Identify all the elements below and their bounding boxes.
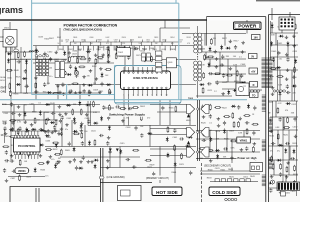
- resistor R617: [60, 150, 62, 154]
- capacitor C612: [220, 63, 225, 66]
- svg-text:C614: C614: [140, 51, 146, 53]
- capacitor C637: [209, 114, 212, 119]
- svg-text:100: 100: [233, 56, 236, 58]
- resistor R607: [77, 59, 79, 63]
- svg-text:470: 470: [87, 75, 90, 77]
- svg-text:HOT SIDE: HOT SIDE: [156, 190, 178, 195]
- polarity arrow 4: [109, 149, 112, 152]
- ground: [74, 91, 78, 94]
- svg-text:Power on: High: Power on: High: [238, 156, 257, 160]
- wire: [35, 46, 37, 100]
- capacitor C621: [82, 156, 85, 161]
- diode D603: [8, 52, 11, 55]
- capacitor C612: [223, 121, 226, 126]
- resistor R612: [225, 116, 229, 118]
- resistor R625: [272, 164, 274, 168]
- svg-text:POWER FACTOR CORRECTION: POWER FACTOR CORRECTION: [64, 23, 118, 27]
- wire: [88, 125, 196, 127]
- capacitor C612: [292, 76, 297, 79]
- diode D615: [223, 130, 226, 133]
- svg-text:Q601: Q601: [152, 49, 157, 51]
- resistor R601: [233, 123, 235, 127]
- wire: [87, 46, 89, 63]
- diode D621: [242, 90, 245, 93]
- resistor R652: [146, 159, 150, 161]
- capacitor C608: [254, 156, 257, 161]
- ground: [46, 161, 50, 164]
- resistor R604: [271, 157, 273, 161]
- ground: [82, 83, 86, 86]
- bridge rectifier D601: [3, 30, 17, 48]
- ground: [202, 133, 206, 136]
- capacitor C633: [2, 121, 7, 124]
- PFC controller pins bottom: [15, 152, 17, 155]
- capacitor C605: [277, 51, 280, 56]
- node box right edge: [250, 163, 263, 172]
- svg-text:0.1: 0.1: [209, 123, 212, 125]
- svg-text:3: 3: [133, 95, 134, 97]
- ground: [213, 50, 217, 53]
- wire: [109, 147, 111, 168]
- resistor R633: [9, 84, 11, 88]
- svg-text:0.1: 0.1: [239, 56, 242, 58]
- resistor R645: [47, 149, 51, 151]
- wire: [150, 111, 187, 113]
- wire: [285, 175, 287, 188]
- IC601 pins: [123, 72, 125, 74]
- resistor R609: [106, 69, 110, 71]
- ground: [240, 148, 244, 151]
- svg-text:100: 100: [47, 83, 50, 85]
- diode D603: [40, 144, 43, 147]
- svg-text:R603: R603: [59, 49, 64, 51]
- diode D621: [277, 66, 280, 69]
- diode D605: [73, 118, 76, 121]
- svg-text:P.F.CONTROL: P.F.CONTROL: [18, 144, 36, 148]
- capacitor C641: [201, 105, 204, 110]
- caption live ground: [106, 175, 132, 180]
- svg-text:4.7: 4.7: [98, 42, 100, 44]
- diode D621: [216, 155, 219, 158]
- ground: [107, 136, 111, 139]
- diode D601: [67, 104, 70, 107]
- diode D603: [94, 165, 97, 168]
- ground: [54, 51, 58, 54]
- wire stubs bus join: [59, 42, 61, 46]
- capacitor C612: [81, 141, 84, 146]
- diode D602 circled: [62, 71, 66, 75]
- wire: [268, 69, 298, 71]
- wire: [283, 117, 285, 130]
- wire: [55, 84, 196, 86]
- wire: [200, 173, 260, 175]
- resistor R622: [73, 83, 77, 85]
- capacitor C601: [223, 147, 228, 150]
- ground: [85, 113, 89, 116]
- resistor R640: [7, 69, 11, 71]
- capacitor C633: [17, 60, 22, 63]
- ground: [34, 76, 38, 79]
- resistor R645: [204, 55, 206, 59]
- capacitor C603: [3, 168, 6, 173]
- capacitor C615: [208, 72, 213, 75]
- diode D603 circled: [74, 71, 78, 75]
- capacitor C608: [4, 159, 9, 162]
- resistor R636: [208, 149, 212, 151]
- wire: [53, 105, 55, 121]
- connector CN601 block: [279, 17, 295, 30]
- polarity arrow 2: [187, 141, 190, 145]
- wire: [10, 47, 12, 93]
- wire: [281, 22, 283, 33]
- svg-text:100: 100: [49, 68, 52, 70]
- ground: [270, 175, 274, 178]
- svg-text:R618: R618: [171, 49, 176, 51]
- wire: [67, 46, 69, 63]
- diode D607: [100, 117, 103, 120]
- diode D601: [270, 42, 273, 45]
- svg-text:D603: D603: [130, 39, 134, 41]
- ground: [49, 155, 53, 158]
- ground: [17, 139, 21, 142]
- wire: [5, 51, 33, 53]
- capacitor C621: [41, 73, 46, 76]
- wire: [196, 130, 260, 132]
- wire: [169, 100, 171, 125]
- diode D621: [94, 122, 97, 125]
- wire: [5, 47, 7, 93]
- resistor R612: [17, 129, 19, 133]
- capacitor C615: [18, 168, 21, 173]
- resistor R640: [93, 102, 95, 106]
- wire: [246, 20, 248, 34]
- HOT SIDE box: [152, 187, 182, 196]
- resistor R648: [56, 153, 60, 155]
- ground: [10, 154, 14, 157]
- capacitor C621: [100, 82, 103, 87]
- ground: [286, 161, 290, 164]
- resistor R615: [215, 73, 219, 75]
- svg-text:C611: C611: [146, 39, 150, 41]
- diode D617: [25, 61, 28, 64]
- wire: [159, 147, 161, 184]
- diode D612: [7, 60, 10, 63]
- svg-text:C607: C607: [114, 39, 118, 41]
- capacitor C623: [207, 82, 212, 85]
- diode D607: [46, 134, 49, 137]
- wire: [79, 85, 81, 100]
- node J box: [249, 54, 258, 59]
- diode D621: [51, 121, 54, 124]
- ground: [292, 44, 296, 47]
- capacitor C630: [221, 55, 224, 60]
- capacitor C633: [290, 157, 295, 160]
- diode D609: [239, 157, 242, 160]
- resistor R609: [36, 56, 38, 60]
- diode D612: [286, 43, 289, 46]
- wire: [287, 45, 289, 57]
- capacitor C630: [286, 57, 289, 62]
- highlight PFC box right: [178, 3, 180, 100]
- inductor L605 pad: [99, 176, 104, 179]
- ground: [270, 129, 274, 132]
- capacitor C623: [68, 89, 73, 92]
- svg-text:8: 8: [156, 95, 157, 97]
- wire stubs upper: [61, 40, 63, 43]
- resistor R636: [115, 54, 117, 58]
- ground: [56, 67, 60, 70]
- ground: [26, 129, 30, 132]
- resistor R615: [19, 161, 21, 165]
- diode D623: [74, 68, 77, 71]
- svg-text:(SECONDARY CIRCUIT): (SECONDARY CIRCUIT): [204, 165, 231, 168]
- wire: [150, 104, 187, 106]
- diode D615: [148, 132, 151, 135]
- resistor R615: [280, 164, 282, 168]
- diode D609: [294, 60, 297, 63]
- resistor R615: [72, 110, 74, 114]
- capacitor C608: [134, 47, 139, 50]
- wire: [196, 158, 248, 160]
- svg-text:222: 222: [147, 42, 150, 44]
- resistor R604: [108, 106, 110, 110]
- wire: [200, 51, 246, 53]
- capacitor C633: [127, 55, 130, 60]
- svg-text:470: 470: [147, 118, 150, 120]
- PFC controller top leads: [15, 131, 17, 135]
- diode D623: [101, 74, 104, 77]
- POWER box: [234, 22, 262, 30]
- resistor R615: [277, 108, 279, 112]
- wire: [222, 88, 246, 90]
- diode D623: [79, 167, 82, 170]
- wire: [182, 33, 246, 35]
- wire: [224, 34, 226, 46]
- capacitor C612: [42, 58, 47, 61]
- capacitor C623: [10, 159, 15, 162]
- diode D607: [293, 85, 296, 88]
- inductor L603: [71, 56, 84, 57]
- capacitor C618: [27, 153, 30, 158]
- svg-text:473: 473: [66, 42, 69, 44]
- svg-text:POWER: POWER: [238, 23, 257, 29]
- pad on border: [271, 180, 275, 184]
- wire: [200, 170, 260, 172]
- svg-text:R605: R605: [73, 37, 77, 39]
- svg-text:1: 1: [123, 95, 124, 97]
- wire: [196, 138, 260, 140]
- transformer T603 winding 3: [187, 147, 195, 157]
- resistor R648: [81, 58, 85, 60]
- diode D612: [227, 47, 230, 50]
- resistor R612: [277, 135, 279, 139]
- ground row: [58, 91, 62, 94]
- capacitor C637: [271, 142, 276, 145]
- capacitor C605: [245, 121, 250, 124]
- transformer T604 winding 5: [268, 157, 272, 159]
- polarity arrow 1: [187, 114, 190, 118]
- svg-text:IC601 STR-Z2152A: IC601 STR-Z2152A: [133, 76, 158, 80]
- wire: [160, 27, 190, 29]
- capacitor C633: [161, 106, 164, 111]
- resistor R648: [35, 83, 37, 87]
- ground: [4, 132, 8, 135]
- wire: [270, 44, 298, 46]
- svg-text:TO: TO: [252, 94, 255, 97]
- svg-text:105: 105: [114, 42, 117, 44]
- diode D605: [78, 102, 81, 105]
- ground: [106, 159, 110, 162]
- ground: [106, 166, 110, 169]
- highlight stub: [66, 84, 68, 100]
- capacitor C623: [18, 126, 21, 131]
- wire: [235, 66, 237, 89]
- resistor R607: [109, 90, 111, 94]
- capacitor C630: [272, 57, 275, 62]
- ground: [285, 53, 289, 56]
- ground: [64, 112, 68, 115]
- transformer T604 winding 4: [262, 139, 266, 141]
- resistor R631: [174, 146, 176, 150]
- resistor R612: [238, 122, 240, 126]
- capacitor C644: [252, 131, 255, 136]
- ground: [43, 52, 47, 55]
- ground: [215, 65, 219, 68]
- capacitor C603: [53, 125, 56, 130]
- ground: [279, 191, 283, 194]
- node 8V box: [249, 68, 258, 74]
- COLD SIDE box: [209, 187, 240, 196]
- svg-text:6: 6: [147, 95, 148, 97]
- svg-text:VR601: VR601: [240, 140, 248, 143]
- resistor R620: [4, 146, 8, 148]
- jumper row: [215, 179, 219, 182]
- capacitor C608: [69, 64, 72, 69]
- wire: [174, 147, 176, 184]
- svg-text:L602: L602: [106, 49, 110, 51]
- ground: [271, 92, 275, 95]
- wire: [77, 46, 79, 63]
- ground: [5, 179, 9, 182]
- svg-text:16V: 16V: [253, 37, 258, 40]
- bottom left box: [10, 187, 100, 203]
- ground: [50, 131, 54, 134]
- ground: [252, 142, 256, 145]
- diode D617: [284, 150, 287, 153]
- wire: [84, 125, 86, 147]
- svg-text:5: 5: [142, 95, 143, 97]
- page border hot: [265, 17, 267, 202]
- capacitor C615: [253, 106, 256, 111]
- svg-text:47u: 47u: [45, 176, 48, 178]
- wire: [2, 104, 100, 106]
- wire: [47, 63, 49, 85]
- ground: [229, 67, 233, 70]
- resistor R633: [69, 57, 71, 61]
- resistor R612: [253, 123, 257, 125]
- wire: [270, 56, 298, 58]
- wire: [61, 120, 63, 147]
- wire: [226, 131, 228, 153]
- wire: [87, 101, 89, 126]
- diode D607: [17, 83, 20, 86]
- relay RL601 grid: [36, 60, 39, 63]
- ground: [107, 60, 111, 63]
- resistor R652: [19, 176, 21, 180]
- svg-text:HIGH: HIGH: [186, 120, 191, 122]
- op-amp PFC controller body: [14, 138, 41, 152]
- wire: [20, 47, 22, 93]
- right column verticals: [270, 21, 272, 60]
- svg-text:DEGA: DEGA: [0, 76, 6, 79]
- wire: [268, 159, 298, 161]
- ground: [238, 117, 242, 120]
- svg-text:R614: R614: [170, 37, 174, 39]
- resistor R622: [74, 133, 78, 135]
- diode D605: [119, 150, 122, 153]
- diode D607: [286, 26, 289, 29]
- capacitor C601: [186, 154, 191, 157]
- diode D603: [89, 84, 92, 87]
- diode D605: [54, 165, 57, 168]
- diode D603: [87, 103, 90, 106]
- PFC controller bottom leads: [15, 155, 17, 159]
- resistor R636: [209, 56, 213, 58]
- diode D623: [25, 129, 28, 132]
- capacitor C603: [269, 75, 274, 78]
- capacitor C630: [61, 115, 64, 120]
- wire: [71, 120, 73, 147]
- caption primary circuit: [145, 176, 173, 181]
- inductor T601 winding upper: [194, 33, 198, 37]
- wire: [150, 155, 187, 157]
- ground: [58, 113, 62, 116]
- capacitor C603: [234, 45, 237, 50]
- diode D615: [292, 150, 295, 153]
- wire: [291, 70, 293, 101]
- svg-text:Q601: Q601: [168, 62, 174, 64]
- resistor R617: [236, 71, 238, 75]
- resistor R645: [167, 128, 169, 132]
- diode D609: [61, 67, 64, 70]
- resistor R617: [293, 181, 295, 185]
- ground: [215, 57, 219, 60]
- svg-text:Switching Power Supply: Switching Power Supply: [109, 113, 145, 117]
- transformer T602 box: [117, 48, 131, 56]
- diode D603: [247, 105, 250, 108]
- svg-text:0.1: 0.1: [38, 102, 41, 104]
- capacitor C612: [216, 80, 219, 85]
- highlight switch box left: [114, 66, 116, 100]
- diode D609: [278, 92, 281, 95]
- ground: [241, 50, 245, 53]
- svg-text:471: 471: [106, 43, 109, 45]
- capacitor C605: [61, 82, 64, 87]
- wire: [33, 62, 114, 64]
- wire: [189, 104, 191, 125]
- inductor L605 lines: [99, 148, 101, 202]
- PFC controller pins top: [15, 135, 17, 138]
- wire: [205, 52, 207, 59]
- capacitor C605: [24, 85, 29, 88]
- svg-text:D602: D602: [78, 49, 83, 51]
- diode D609: [220, 46, 223, 49]
- resistor R609: [216, 106, 220, 108]
- cold page top: [269, 14, 300, 16]
- svg-text:C609: C609: [133, 49, 138, 51]
- capacitor C605: [49, 57, 52, 62]
- wire: [107, 46, 109, 63]
